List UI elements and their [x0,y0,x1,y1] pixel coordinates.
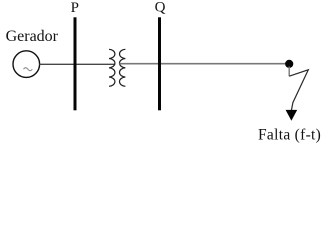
generator sine symbol [24,68,33,71]
svg-text:Q: Q [155,0,166,16]
bus Q [158,17,161,110]
svg-text:P: P [71,0,79,16]
transformer T1 primary winding [109,49,115,86]
bus P [74,17,77,110]
wire generator to transformer [39,63,115,65]
fault lightning stroke [288,67,290,77]
transformer T1 secondary winding [119,49,125,86]
fault node junction dot [285,60,293,68]
svg-text:Falta (f-t): Falta (f-t) [258,127,321,144]
svg-text:Gerador: Gerador [6,28,59,45]
wire transformer to fault node [119,63,289,65]
fault arrowhead [286,110,298,121]
generator G1 [13,51,40,78]
